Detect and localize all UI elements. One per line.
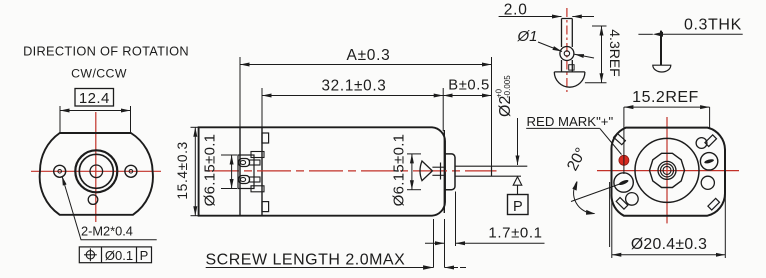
leader 0.3THK [658, 33, 743, 35]
extension line left 12.4 [59, 106, 61, 133]
red mark leader [600, 128, 622, 154]
extension tick Ø6.15 left top [221, 154, 237, 156]
svg-text:-0.005: -0.005 [503, 75, 512, 98]
back view inner polygon [650, 153, 685, 187]
dimension line 1.7 left [425, 242, 445, 244]
dimension line Ø6.15 right [411, 154, 413, 190]
screw 2 head [239, 176, 250, 184]
extension line 15.2 left [623, 107, 625, 174]
dimension line 2.0 right [572, 16, 594, 18]
svg-text:12.4: 12.4 [79, 90, 110, 107]
note underline and screw dim left [206, 267, 434, 269]
shaft bushing ring outer [658, 161, 676, 179]
extension line boss face [455, 192, 457, 247]
bearing retainer line [440, 163, 442, 180]
face view red horizontal centerline [31, 170, 161, 172]
shaft bushing ring middle [661, 164, 674, 177]
right brush slot [704, 158, 715, 164]
extension line 32.1 left [261, 88, 263, 127]
left brush slot [618, 179, 629, 186]
right brush hole [700, 153, 717, 170]
dimension Ø6.15 left text [202, 134, 219, 207]
extension line Ø20.4 left [611, 195, 613, 258]
svg-text:15.4±0.3: 15.4±0.3 [175, 141, 190, 199]
left brush hole [614, 173, 633, 192]
screw dim right arrow [445, 267, 459, 269]
extension line A left [239, 57, 241, 127]
datum P box [508, 195, 529, 215]
right bearing boss [444, 154, 455, 190]
svg-text:0.3THK: 0.3THK [684, 17, 742, 34]
dimension line 4.3REF [601, 26, 603, 83]
leader Ø2 [517, 118, 519, 165]
terminal eyelet [560, 47, 574, 61]
screw 2 shank [250, 177, 261, 182]
motor face outline [40, 133, 153, 215]
notch top right [705, 135, 717, 147]
screw 1 head [239, 159, 250, 167]
shaft bottom line [455, 175, 521, 177]
back view outline [611, 128, 725, 216]
leader 2-M2*0.4 [62, 176, 157, 240]
back view red horizontal centerline [597, 170, 739, 172]
extension line 15.2 right [709, 107, 711, 128]
side view red centerline [205, 170, 497, 172]
back view red vertical centerline [666, 117, 668, 223]
extension tick bottom 15.4 [191, 215, 199, 217]
svg-text:2.0: 2.0 [504, 2, 528, 19]
svg-text:A±0.3: A±0.3 [347, 47, 391, 64]
dimension Ø6.15 right text [391, 134, 408, 207]
red mark leader landing [526, 127, 600, 129]
shaft top line [455, 165, 527, 167]
svg-text:B±0.5: B±0.5 [448, 78, 490, 94]
svg-text:Ø6.15±0.1: Ø6.15±0.1 [202, 134, 219, 207]
extension line right 12.4 [130, 106, 132, 133]
notch top left [614, 133, 626, 144]
can junction line [261, 127, 263, 215]
left mounting hole M2 [54, 165, 66, 177]
terminal notch [569, 65, 574, 70]
extension line 32.1 right [442, 88, 444, 131]
svg-text:Ø20.4±0.3: Ø20.4±0.3 [631, 236, 707, 253]
cone washer [420, 161, 432, 181]
svg-text:32.1±0.3: 32.1±0.3 [321, 78, 386, 95]
dimension line Ø6.15 left [231, 155, 233, 189]
bearing boss inner circle [79, 154, 113, 188]
svg-text:20°: 20° [564, 145, 590, 174]
extension tick top 15.4 [191, 126, 199, 128]
endcap detail bottom [251, 186, 264, 192]
svg-text:15.2REF: 15.2REF [632, 89, 699, 106]
side view body outline [199, 127, 445, 215]
dimension Ø2 tolerance text [495, 75, 515, 117]
svg-text:P: P [140, 248, 149, 263]
leader Ø1 [538, 42, 562, 52]
back view large circle [635, 138, 699, 202]
shaft hole circle [90, 165, 103, 178]
dimension line 32.1 [262, 95, 443, 97]
dimension line A [240, 64, 492, 66]
face view red vertical centerline [95, 112, 97, 222]
dimension line 15.2REF [624, 106, 710, 108]
svg-text:Ø6.15±0.1: Ø6.15±0.1 [391, 134, 408, 207]
extension line can face bottom [444, 219, 446, 268]
top right hole [696, 138, 707, 149]
dimension line 15.4 [194, 127, 196, 215]
can face line [443, 130, 445, 213]
red mark dot [619, 155, 629, 165]
terminal strip [562, 19, 573, 72]
shaft inside boss top [432, 166, 444, 168]
terminal red centerline [566, 8, 568, 92]
svg-text:RED MARK"+": RED MARK"+" [527, 114, 614, 129]
svg-text:1.7±0.1: 1.7±0.1 [488, 225, 542, 242]
angle 20 arc [574, 182, 595, 214]
extension line right shaft tip [491, 57, 493, 166]
right mounting hole center [129, 170, 133, 174]
datum P triangle [513, 177, 522, 185]
position symbol [86, 251, 94, 259]
notch bottom right [708, 198, 720, 210]
terminal side view blade [660, 31, 662, 65]
extension line Ø20.4 right [724, 194, 726, 258]
endcap junction line [239, 127, 241, 215]
angle 20 slot axis line [571, 181, 628, 202]
shaft inside boss bottom [432, 174, 444, 176]
shaft circle [663, 166, 671, 174]
svg-text:P: P [513, 199, 523, 215]
left mounting hole center [58, 170, 62, 174]
extension tick 4.3REF top [592, 25, 607, 27]
endcap detail top [251, 152, 264, 158]
dimension line 12.4 [60, 110, 131, 112]
datum P stem [517, 185, 519, 194]
extension tick Ø6.15 right bottom [407, 189, 421, 191]
left boss outline [238, 155, 254, 189]
svg-text:SCREW LENGTH 2.0MAX: SCREW LENGTH 2.0MAX [206, 252, 406, 269]
bearing boss outer circle [75, 150, 117, 192]
svg-text:4.3REF: 4.3REF [607, 29, 623, 76]
bottom left hole [626, 193, 639, 206]
crimp tab bottom [262, 202, 269, 212]
angle 20 vertical reference [609, 182, 611, 247]
notch bottom left [616, 198, 628, 210]
svg-text:Ø0.1: Ø0.1 [105, 248, 133, 263]
dimension line 1.7 right [456, 242, 545, 244]
right mounting hole M2 [125, 165, 137, 177]
dimension 4.3REF text rotated [607, 29, 623, 76]
crimp tab top [262, 133, 269, 143]
extension tick Ø6.15 left bottom [221, 188, 237, 190]
dimension line B [443, 95, 491, 97]
bottom hole [88, 195, 98, 205]
screw 2 slot [240, 178, 245, 182]
extension line screw tip [433, 219, 435, 268]
shaft tip [491, 166, 493, 176]
boxed dimension 12.4 [75, 89, 114, 107]
svg-text:DIRECTION OF ROTATION: DIRECTION OF ROTATION [23, 44, 189, 59]
terminal base semicircle [554, 72, 585, 87]
terminal side view base [653, 65, 671, 72]
dimension text 15.4±0.3 rotated [175, 141, 190, 199]
feature control frame box [79, 247, 151, 263]
terminal hole Ø1 [564, 51, 569, 56]
svg-text:Ø1: Ø1 [517, 28, 538, 45]
screw 1 slot [240, 161, 245, 165]
svg-text:CW/CCW: CW/CCW [71, 67, 127, 81]
bottom right hole [701, 176, 714, 189]
screw 1 shank [250, 160, 261, 165]
dimension line 2.0 left [499, 16, 562, 18]
dimension line Ø20.4 [612, 254, 726, 256]
label 20 degrees rotated [564, 145, 590, 174]
svg-text:2-M2*0.4: 2-M2*0.4 [81, 224, 133, 239]
arrow at eyelet right [575, 54, 595, 58]
extension tick Ø6.15 right top [407, 153, 421, 155]
extension tick 4.3REF bottom [585, 82, 607, 84]
